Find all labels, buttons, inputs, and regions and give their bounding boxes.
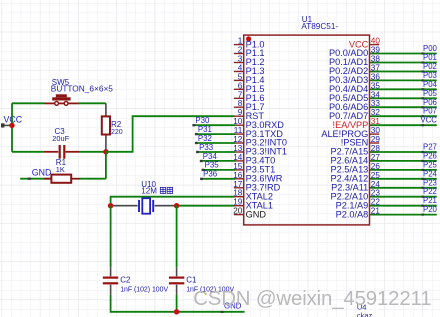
wire net P02 <box>371 62 437 73</box>
wire left leg down <box>110 206 112 268</box>
U1 pin 33 P0.6/AD6 <box>329 99 380 112</box>
node bottom junction <box>174 309 179 314</box>
U1 pin 15 P3.5T1 <box>233 162 275 175</box>
U1 pin 21 P2.0/A8 <box>336 207 381 220</box>
svg-text:17: 17 <box>233 180 243 189</box>
svg-text:P05: P05 <box>423 89 438 98</box>
wire net P07 <box>371 107 437 118</box>
U1 pin 37 P0.2/AD2 <box>329 64 380 77</box>
svg-text:P36: P36 <box>203 170 218 179</box>
svg-text:P02: P02 <box>423 62 437 71</box>
svg-text:7: 7 <box>238 90 243 99</box>
U1 pin 7 P1.6 <box>234 90 265 103</box>
svg-text:P25: P25 <box>423 160 438 169</box>
U1 pin 2 P1.1 <box>234 46 265 59</box>
U1 pin 26 P2.5/A13 <box>330 162 380 175</box>
U1 pin 3 P1.2 <box>234 55 265 68</box>
resistor R2 <box>102 103 110 152</box>
U1 pin 27 P2.6/A14 <box>330 153 380 166</box>
U1 pin 18 XTAL2 <box>233 189 273 202</box>
svg-text:6: 6 <box>238 81 243 90</box>
wire C3 row right <box>79 151 106 153</box>
svg-text:P21: P21 <box>423 196 437 205</box>
svg-text:ckaz: ckaz <box>357 311 373 317</box>
svg-text:P30: P30 <box>195 116 210 125</box>
U1 pin 22 P2.1/A9 <box>336 198 381 211</box>
wire net P33 <box>196 143 235 153</box>
wire R2 column down <box>105 152 107 179</box>
wire right leg to bottom <box>176 295 178 312</box>
svg-text:P31: P31 <box>198 125 212 134</box>
wire net P27 <box>371 143 437 154</box>
svg-text:4: 4 <box>238 64 243 73</box>
U1 pin 30 ALE!PROG <box>321 126 380 139</box>
svg-text:1K: 1K <box>56 165 65 174</box>
node crystal right junction <box>174 203 179 208</box>
svg-text:P03: P03 <box>423 71 437 80</box>
resistor R1 <box>44 175 80 183</box>
svg-text:P01: P01 <box>423 53 437 62</box>
wire net P31 <box>195 125 235 135</box>
svg-text:P27: P27 <box>423 143 437 152</box>
U1 pin 6 P1.5 <box>234 81 265 94</box>
svg-text:P33: P33 <box>199 143 214 152</box>
svg-text:GND: GND <box>32 168 52 178</box>
wire XTAL1 pin19 <box>177 205 235 207</box>
svg-text:P34: P34 <box>203 152 218 161</box>
power port VCC <box>1 114 23 127</box>
wire net P05 <box>371 89 438 100</box>
svg-text:1: 1 <box>238 37 243 46</box>
U1 pin 17 P3.7!RD <box>233 180 280 193</box>
svg-text:P2.0/A8: P2.0/A8 <box>336 209 369 219</box>
U1 pin 19 XTAL1 <box>233 198 273 211</box>
wire net P21 <box>371 196 437 207</box>
U1 pin 13 P3.3!INT1 <box>233 144 287 157</box>
U1 pin 29 !PSEN <box>341 135 381 148</box>
svg-text:C2: C2 <box>120 276 131 285</box>
U1 pin 16 P3.6!WR <box>233 171 283 184</box>
svg-text:19: 19 <box>233 198 243 207</box>
svg-text:9: 9 <box>238 108 243 117</box>
wire net P34 <box>200 152 235 162</box>
wire net P35 <box>202 161 236 171</box>
wire net P23 <box>371 178 437 189</box>
svg-text:20uF: 20uF <box>52 134 69 143</box>
svg-text:P32: P32 <box>198 134 212 143</box>
svg-text:20: 20 <box>233 207 243 216</box>
op IC U1 body <box>244 35 370 225</box>
svg-text:29: 29 <box>371 135 381 144</box>
wire left leg to bottom <box>111 295 177 312</box>
U1 pin 20 GND <box>233 207 266 220</box>
node U1 origin dot <box>246 36 251 41</box>
svg-text:P20: P20 <box>423 205 438 214</box>
wire net P30 <box>192 116 235 126</box>
wire XTAL2 pin18 <box>111 197 235 206</box>
svg-text:P06: P06 <box>423 98 437 107</box>
wire net P06 <box>371 98 437 109</box>
U1 pin 35 P0.4/AD4 <box>329 81 380 94</box>
svg-text:AT89C51-: AT89C51- <box>301 22 338 31</box>
wire net P26 <box>371 151 437 162</box>
svg-text:18: 18 <box>233 189 243 198</box>
U1 pin 28 P2.7/A15 <box>330 144 380 157</box>
U1 pin 12 P3.2!INT0 <box>233 135 287 148</box>
wire net P04 <box>371 80 438 91</box>
wire net P03 <box>371 71 437 82</box>
svg-text:1nF (102) 100V: 1nF (102) 100V <box>120 287 168 294</box>
wire net P25 <box>371 160 438 171</box>
label 12M crystal <box>141 187 172 196</box>
wire net P01 <box>371 53 437 64</box>
wire button to R2 corner <box>79 102 106 104</box>
wire net P32 <box>195 134 235 144</box>
U1 pin 38 P0.1/AD1 <box>329 55 380 68</box>
wire net P20 <box>371 205 438 216</box>
U1 pin 36 P0.3/AD3 <box>329 72 380 85</box>
svg-text:2: 2 <box>238 46 243 55</box>
U1 pin 8 P1.7 <box>234 99 265 112</box>
wire net P00 <box>371 44 438 55</box>
U1 pin 24 P2.3/A11 <box>331 180 380 193</box>
node R2/C3/RST junction <box>103 149 108 154</box>
U1 pin 40 VCC <box>349 37 380 50</box>
U1 pin 23 P2.2/A10 <box>330 189 380 202</box>
wire net VCC pin31 <box>371 116 438 127</box>
svg-text:VCC: VCC <box>4 114 23 124</box>
U1 pin 10 P3.0RXD <box>233 117 284 130</box>
U1 pin 14 P3.4T0 <box>233 153 275 166</box>
svg-text:P24: P24 <box>423 169 438 178</box>
net label GND bottom <box>221 301 242 313</box>
svg-text:CSDN @weixin_45912211: CSDN @weixin_45912211 <box>193 288 431 310</box>
svg-text:P26: P26 <box>423 151 437 160</box>
svg-text:8: 8 <box>238 99 243 108</box>
svg-text:220: 220 <box>111 129 123 136</box>
svg-text:40: 40 <box>371 37 381 46</box>
wire bottom gnd rail <box>177 311 245 313</box>
wire net P36 <box>200 170 235 180</box>
svg-text:3: 3 <box>238 55 243 64</box>
svg-text:30: 30 <box>371 126 381 135</box>
svg-text:BUTTON_6×6×5: BUTTON_6×6×5 <box>51 84 113 94</box>
node crystal left junction <box>108 203 113 208</box>
wire net P22 <box>371 187 437 198</box>
svg-text:P04: P04 <box>423 80 438 89</box>
U1 pin 11 P3.1TXD <box>234 126 283 139</box>
switch SW5 button <box>45 94 79 105</box>
U1 pin 31 !EA/VPP <box>333 117 381 130</box>
svg-text:VCC: VCC <box>420 116 437 125</box>
node VCC junction <box>9 123 14 128</box>
wire net P24 <box>371 169 438 180</box>
U1 pin 1 P1.0 <box>234 37 265 50</box>
svg-text:P23: P23 <box>423 178 437 187</box>
svg-text:GND: GND <box>246 209 267 219</box>
capacitor C1 <box>169 267 184 295</box>
svg-text:12M: 12M <box>141 187 157 196</box>
U1 pin 5 P1.4 <box>234 72 265 85</box>
wire top row to button <box>12 102 45 104</box>
svg-text:C1: C1 <box>186 276 197 285</box>
wire bottom row right of R1 <box>80 178 106 180</box>
wire VCC vertical rail <box>11 103 13 152</box>
U1 pin 4 P1.3 <box>234 64 265 77</box>
svg-text:5: 5 <box>238 72 243 81</box>
svg-text:P22: P22 <box>423 187 437 196</box>
svg-text:P35: P35 <box>205 161 220 170</box>
capacitor C3 <box>44 145 79 159</box>
U1 pin 32 P0.7/AD7 <box>329 108 380 121</box>
U1 pin 25 P2.4/A12 <box>330 171 380 184</box>
capacitor C2 <box>103 267 118 295</box>
wire C3 row left <box>12 151 44 153</box>
wire RST to junction <box>106 116 235 152</box>
svg-text:P00: P00 <box>423 44 438 53</box>
U1 pin 39 P0.0/AD0 <box>329 46 380 59</box>
wire right leg down <box>176 206 178 268</box>
crystal U10 <box>111 198 177 214</box>
U1 pin 9 RST <box>234 108 264 121</box>
svg-text:P07: P07 <box>423 107 437 116</box>
power port GND <box>20 168 51 180</box>
U1 pin 34 P0.5/AD5 <box>329 90 380 103</box>
